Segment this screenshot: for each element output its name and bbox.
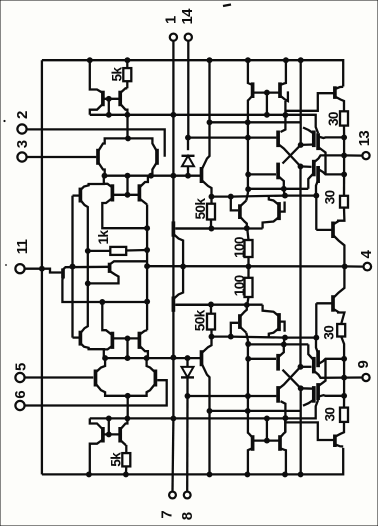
- transistor Q16: [278, 82, 282, 98]
- wire input stage rail B: [105, 357, 201, 359]
- transistor Q7 (QL): [79, 188, 83, 203]
- svg-text:1: 1: [163, 16, 180, 24]
- wire pins 1-7 column: [172, 115, 174, 419]
- transistor Q27: [94, 370, 98, 387]
- svg-text:6: 6: [12, 391, 29, 399]
- resistor R3 50k: [207, 204, 215, 220]
- transistor Q39: [312, 386, 316, 403]
- transistor Q40: [276, 354, 280, 371]
- node X lower: [298, 163, 304, 169]
- wire output bus bottom: [343, 359, 345, 396]
- transistor Q10: [172, 221, 176, 236]
- transistor Q2: [118, 91, 122, 107]
- speck artifacts: [223, 5, 231, 7]
- svg-text:30: 30: [323, 189, 338, 204]
- wire mid rail pin4: [147, 265, 345, 267]
- transistor Q22: [316, 133, 320, 150]
- wire X3m base: [248, 358, 276, 360]
- diode D1: [187, 138, 189, 151]
- wire bus drop: [300, 60, 302, 145]
- transistor Q14: [277, 202, 281, 220]
- diode D2: [186, 358, 188, 368]
- wire QE collector line: [231, 196, 316, 230]
- resistor R5 30: [340, 196, 348, 208]
- transistor Q11: [172, 297, 176, 312]
- svg-text:50k: 50k: [193, 198, 208, 220]
- node X upper B: [298, 364, 304, 370]
- wire emitter rail A: [90, 115, 318, 133]
- wire QE base feed: [212, 195, 231, 197]
- wire base rail X2: [188, 395, 277, 397]
- resistor R9 30: [337, 324, 345, 337]
- svg-text:8: 8: [179, 512, 196, 520]
- transistor Q8: [61, 268, 65, 278]
- transistor Q38: [276, 386, 280, 403]
- svg-text:2: 2: [14, 111, 31, 119]
- transistor Q33: [238, 314, 242, 329]
- transistor Q12: [200, 167, 204, 183]
- svg-text:30: 30: [323, 407, 338, 422]
- svg-text:9: 9: [355, 361, 372, 369]
- svg-text:50k: 50k: [193, 309, 208, 331]
- transistor Q18: [276, 131, 280, 148]
- resistor R10 100: [245, 240, 253, 257]
- transistor Q5: [111, 184, 115, 201]
- pin 5 terminal: [15, 373, 24, 382]
- wire QE base feed B: [212, 335, 231, 337]
- pin 1 terminal: [170, 34, 177, 41]
- transistor Q1: [101, 91, 105, 107]
- wire emitter rail B: [90, 400, 318, 418]
- transistor Q29: [111, 332, 115, 349]
- resistor R6 5k: [122, 453, 130, 466]
- pin 14 terminal: [185, 34, 192, 41]
- wire QD collector tap B: [210, 410, 302, 412]
- svg-text:30: 30: [322, 325, 337, 340]
- resistor R1 5k: [123, 68, 131, 81]
- transistor Q24: [331, 222, 335, 239]
- transistor Q44: [331, 295, 335, 312]
- node bias junction: [85, 280, 91, 286]
- pin 4 terminal: [364, 263, 372, 271]
- wire QD collector tap: [210, 121, 302, 123]
- resistor R7 50k: [207, 314, 215, 330]
- svg-text:30: 30: [326, 111, 341, 126]
- transistor Q43: [316, 350, 320, 367]
- wire output bus top: [343, 137, 345, 174]
- wire input stage rail: [105, 175, 202, 177]
- transistor Q26: [118, 427, 122, 443]
- wire Q3 emitter link: [89, 176, 104, 186]
- transistor Q20: [276, 163, 280, 180]
- svg-text:7: 7: [159, 511, 176, 519]
- resistor R4 30: [340, 111, 348, 125]
- wire base rail X1: [188, 136, 276, 138]
- transistor Q34: [277, 313, 281, 331]
- wire pin11 feed: [25, 269, 62, 273]
- transistor Q4: [155, 149, 159, 165]
- transistor Q36: [278, 435, 282, 451]
- svg-text:1k: 1k: [96, 230, 111, 245]
- transistor Q32: [200, 350, 204, 366]
- pin 8 terminal: [184, 492, 191, 499]
- pin 7 terminal: [169, 492, 176, 499]
- wire X column: [281, 101, 286, 132]
- transistor Q13: [238, 204, 242, 219]
- svg-text:100: 100: [232, 274, 247, 296]
- resistor R8 30: [340, 408, 348, 422]
- transistor Q42: [316, 383, 320, 400]
- resistor R11 100: [245, 278, 253, 297]
- wire QE collector line B: [231, 303, 316, 337]
- pin 11 terminal: [15, 264, 24, 273]
- svg-text:100: 100: [232, 236, 247, 258]
- transistor Q17: [333, 86, 337, 99]
- transistor Q15: [251, 82, 255, 98]
- transistor Q37: [333, 435, 337, 448]
- wire X diag B2: [283, 370, 301, 389]
- pin 9 terminal: [362, 374, 369, 381]
- wire X column B: [281, 401, 286, 432]
- svg-text:5: 5: [13, 363, 30, 371]
- transistor Q35: [251, 435, 255, 451]
- wire stage2 rail: [176, 227, 263, 229]
- wire left supply rail: [41, 60, 43, 474]
- pin 3 terminal: [17, 152, 26, 161]
- pin 6 terminal: [15, 401, 24, 410]
- wire stage2 rail B: [176, 304, 263, 306]
- transistor Q30: [138, 332, 142, 349]
- wire V+ top bus: [42, 60, 343, 86]
- wire center column: [146, 205, 148, 331]
- wire X to output: [299, 166, 301, 366]
- transistor Q28: [154, 370, 158, 387]
- svg-text:4: 4: [358, 250, 375, 259]
- transistor Q19: [312, 131, 316, 148]
- pin 2 terminal: [17, 124, 26, 133]
- svg-text:13: 13: [356, 131, 373, 147]
- transistor Q6: [138, 184, 142, 201]
- transistor Q41: [312, 357, 316, 374]
- svg-text:14: 14: [179, 8, 196, 25]
- wire bias column: [71, 196, 73, 338]
- wire bus drop B: [300, 388, 302, 474]
- transistor Q25: [101, 427, 105, 443]
- transistor Q31: [79, 331, 83, 346]
- transistor Q23: [316, 166, 320, 183]
- transistor Q9: [108, 263, 112, 273]
- wire X emitter rail B: [248, 343, 308, 345]
- svg-text:5k: 5k: [110, 67, 125, 82]
- transistor Q21: [312, 160, 316, 177]
- pin 13 terminal: [362, 152, 369, 159]
- wire X emitter rail: [248, 188, 308, 190]
- svg-text:5k: 5k: [109, 452, 124, 467]
- wire X diag B: [283, 145, 301, 164]
- wire X3 base: [248, 173, 276, 175]
- transistor Q3: [96, 149, 100, 165]
- wire Q27 emitter link: [89, 348, 104, 358]
- resistor R2 1k: [110, 247, 126, 255]
- wire bottom bus: [42, 448, 343, 475]
- svg-text:3: 3: [14, 140, 31, 148]
- svg-text:11: 11: [14, 239, 31, 254]
